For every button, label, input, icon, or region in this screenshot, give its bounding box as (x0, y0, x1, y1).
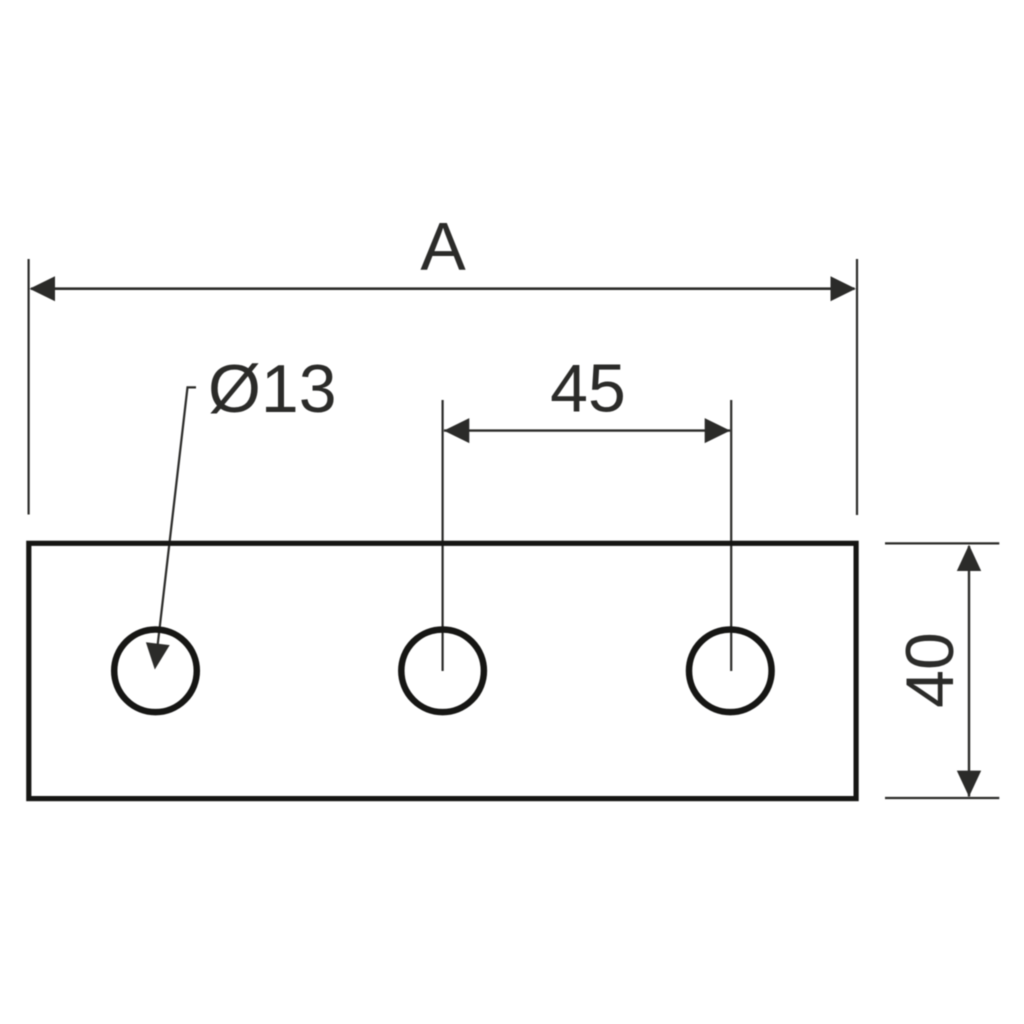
centerline right hole (730, 400, 732, 671)
extension line right of dimension A (856, 259, 858, 515)
leader arrowhead (146, 642, 170, 669)
dimension line 40 (968, 546, 970, 797)
svg-text:45: 45 (550, 351, 626, 427)
dimension line 45 (444, 429, 730, 431)
leader line to left hole (157, 387, 196, 648)
hole left (114, 630, 197, 713)
centerline middle hole (442, 400, 444, 671)
svg-text:40: 40 (892, 632, 968, 708)
arrowhead 40 bottom (957, 771, 981, 797)
extension line bottom of dimension 40 (885, 797, 999, 799)
arrowhead 40 top (957, 545, 981, 571)
svg-text:Ø13: Ø13 (208, 351, 337, 427)
arrowhead A right (831, 276, 856, 301)
dimension line A (31, 287, 855, 290)
hole middle (401, 630, 484, 713)
plate outline (29, 543, 856, 798)
hole right (689, 630, 772, 713)
extension line top of dimension 40 (885, 542, 999, 544)
arrowhead 45 left (444, 418, 470, 443)
svg-text:A: A (420, 208, 466, 284)
arrowhead 45 right (705, 418, 731, 443)
extension line left of dimension A (28, 259, 30, 515)
arrowhead A left (30, 276, 56, 301)
